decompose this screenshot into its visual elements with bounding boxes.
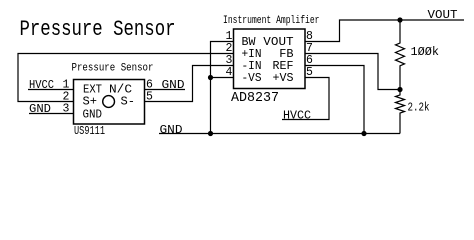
wire REF pin 6 to ground rail	[305, 66, 364, 134]
junction at REF drop and ground rail	[361, 131, 366, 136]
junction at divider midpoint	[397, 87, 402, 92]
svg-text:2.2k: 2.2k	[408, 101, 430, 115]
svg-text:GND: GND	[83, 108, 103, 122]
wire HVCC to sensor pin 1	[28, 89, 74, 91]
junction at -VS and ground vertical	[208, 75, 213, 80]
wire S+ loop: sensor pin 2 to op-amp +IN	[18, 54, 234, 102]
svg-text:Pressure Sensor: Pressure Sensor	[72, 63, 154, 75]
wire +VS pin 5 to HVCC label	[282, 78, 329, 120]
junction at ground vertical and ground rail	[208, 131, 213, 136]
svg-text:VOUT: VOUT	[428, 8, 458, 22]
svg-text:GND: GND	[160, 123, 183, 137]
wire S- riser: sensor pin 5 to op-amp -IN	[145, 66, 234, 102]
pressure sensor US9111 body	[74, 80, 145, 125]
svg-text:AD8237: AD8237	[231, 91, 279, 106]
svg-text:-VS: -VS	[242, 71, 262, 85]
op-amp AD8237 body	[234, 29, 306, 89]
wire FB pin 7 to divider midpoint	[305, 54, 400, 90]
wire GND to sensor pin 3	[29, 113, 74, 115]
wire -VS pin 4 stub	[211, 77, 234, 79]
junction at VOUT rail and 100k	[397, 17, 402, 22]
svg-text:S+: S+	[83, 95, 98, 109]
svg-text:Instrument Amplifier: Instrument Amplifier	[223, 15, 320, 27]
resistor R1 100k	[396, 20, 405, 90]
wire VOUT pin 8 to output rail	[305, 20, 464, 42]
svg-text:+VS: +VS	[273, 71, 294, 85]
svg-text:Pressure Sensor: Pressure Sensor	[20, 17, 176, 42]
resistor R2 2.2k	[396, 90, 405, 134]
svg-text:HVCC: HVCC	[283, 109, 311, 123]
sensor port circle	[103, 96, 115, 108]
svg-text:S-: S-	[121, 95, 136, 109]
svg-text:1ØØk: 1ØØk	[411, 45, 440, 59]
wire sensor pin 6 to GND	[145, 89, 186, 91]
wire ground rail	[159, 133, 400, 135]
wire BW and -VS to ground rail (vertical)	[211, 42, 234, 134]
svg-text:US9111: US9111	[74, 124, 105, 138]
